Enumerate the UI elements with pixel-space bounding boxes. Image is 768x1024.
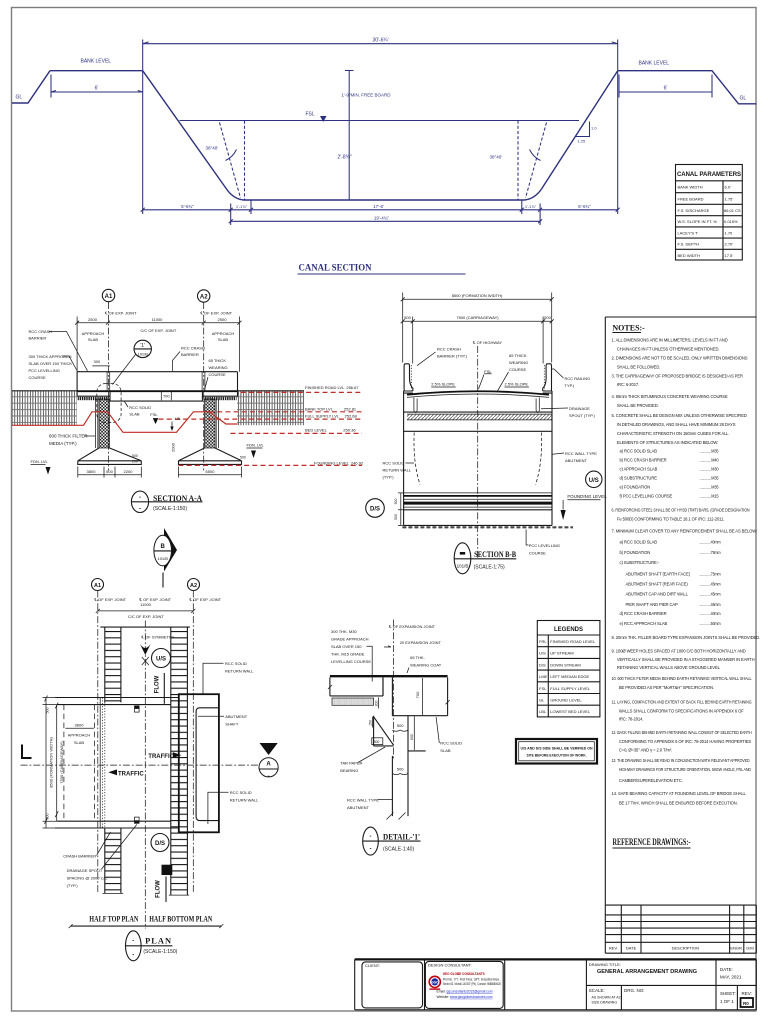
plan deck end line [100,626,189,628]
svg-text:6. REINFORCING STEEL SHALL BE: 6. REINFORCING STEEL SHALL BE OF HYSD (T… [612,507,750,512]
svg-text:GL: GL [16,95,23,101]
svg-text:FDN. LVL: FDN. LVL [247,443,265,448]
svg-text:RETURN WALL: RETURN WALL [225,668,254,673]
svg-text:FINISHED ROAD LVL 256.67: FINISHED ROAD LVL 256.67 [305,385,359,390]
svg-text:COURSE: COURSE [29,375,46,380]
foundation level label left [31,459,51,475]
svg-text:BARRIER: BARRIER [181,352,199,357]
svg-text:-: - [132,939,134,945]
svg-text:CRASH BARRIER: CRASH BARRIER [63,853,96,858]
svg-text:500: 500 [394,499,398,505]
filter media strip A1 [95,399,97,448]
plan return wall label top [203,661,254,694]
svg-text:ABUTMENT SHAFT (EARTH FACE): ABUTMENT SHAFT (EARTH FACE) [626,571,691,576]
svg-text:DRAINAGE SPOUT: DRAINAGE SPOUT [67,868,103,873]
water depth dim 2'-8 5/8" [338,121,352,201]
svg-text:SHALL BE PROVIDED.: SHALL BE PROVIDED. [617,403,659,408]
BB left crash barrier [404,364,413,393]
svg-text:PLAN: PLAN [145,937,172,946]
svg-text:U/S: U/S [589,478,599,484]
svg-text:FINISHED ROAD LEVEL: FINISHED ROAD LEVEL [550,639,596,644]
svg-text:C=0, Ø=35° AND γ = 2.0 T/m³.: C=0, Ø=35° AND γ = 2.0 T/m³. [619,747,672,752]
BB bearing band [407,414,552,420]
svg-text:LEGENDS: LEGENDS [554,627,583,633]
svg-text:ABUTMENT: ABUTMENT [225,714,248,719]
svg-text:1.70: 1.70 [725,230,734,235]
svg-text:RCC SOLID: RCC SOLID [225,661,247,666]
sheet cell [720,991,736,1004]
svg-text:a) RCC SOLID SLAB: a) RCC SOLID SLAB [620,540,658,545]
svg-text:RCC SOLID: RCC SOLID [440,741,462,746]
plan road edges [55,698,179,829]
site verification note box [516,739,597,764]
svg-text:RCC WALL TYPE: RCC WALL TYPE [565,451,597,456]
svg-text:RCC SOLID: RCC SOLID [230,790,252,795]
svg-text:BANK TOP LVL 252.81: BANK TOP LVL 252.81 [305,406,357,411]
svg-text:2200: 2200 [124,469,134,474]
svg-text:RETURN WALL: RETURN WALL [230,797,259,802]
plan flow label top [155,673,165,704]
plan title [126,931,178,961]
svg-text:DATE:: DATE: [720,967,733,972]
svg-text:SLAB: SLAB [74,740,85,745]
bank width dim 6' right [619,75,712,98]
plan D/S marker [151,834,169,852]
svg-text:℄ OF EXP. JOINT: ℄ OF EXP. JOINT [200,311,233,316]
svg-text:3600: 3600 [75,723,85,728]
svg-text:d) RCC CRASH BARRIER: d) RCC CRASH BARRIER [620,611,667,616]
svg-text:8500 (FORMATION WIDTH): 8500 (FORMATION WIDTH) [48,737,53,788]
plan traffic labels [148,752,181,760]
svg-text:7. MINIMUM CLEAR COVER TO ANY: 7. MINIMUM CLEAR COVER TO ANY REINFORCEM… [612,529,758,534]
svg-text:Fe 500D) CONFORMING TO TABLE 1: Fe 500D) CONFORMING TO TABLE 18.1 OF IRC… [617,516,724,521]
svg-text:BE 17 T/m², WHICH SHALL BE ENS: BE 17 T/m², WHICH SHALL BE ENSURED BEFOR… [619,801,738,806]
svg-text:3. THE CARRIAGEWAY OF PROPOSED: 3. THE CARRIAGEWAY OF PROPOSED BRIDGE IS… [612,373,743,378]
svg-text:SHEET:: SHEET: [720,991,736,996]
svg-text:HALF TOP PLAN: HALF TOP PLAN [89,915,138,924]
svg-text:500: 500 [45,708,49,714]
detail1 200 150 dims [368,698,378,728]
detail 1 balloon [113,340,152,384]
plan road centerline [21,764,259,766]
svg-text:B: B [161,544,166,550]
svg-text:3800: 3800 [87,469,97,474]
detail1 600 dim [410,716,414,750]
svg-text:Plot No. 777, First Floor, GPT: Plot No. 777, First Floor, GPT, Industri… [443,977,500,981]
svg-text:............M35: ............M35 [700,475,720,480]
BB right crash barrier [543,364,552,393]
BB formation width dim 8500 [401,293,554,363]
svg-text:C/C OF EXP. JOINT: C/C OF EXP. JOINT [128,614,164,619]
svg-text:COURSE: COURSE [529,551,546,556]
svg-text:GGC: GGC [431,980,439,984]
svg-text:DRAWING TITLE:: DRAWING TITLE: [589,962,621,967]
drg no cell [624,988,645,993]
detail1 500 bearing dim [392,723,408,731]
svg-text:C/C OF EXP. JOINT: C/C OF EXP. JOINT [140,328,176,333]
svg-text:GL: GL [539,698,545,703]
detail1 approach slab label [331,629,372,682]
exp joint label left [104,311,137,316]
BB slope labels [431,382,529,388]
svg-text:5. CONCRETE SHALL BE DESIGN MI: 5. CONCRETE SHALL BE DESIGN MIX UNLESS O… [612,413,747,418]
svg-text:............M35: ............M35 [700,484,720,489]
svg-text:PCC LEVELLING: PCC LEVELLING [29,368,60,373]
svg-text:-: - [370,847,372,853]
svg-text:COURSE: COURSE [209,372,226,377]
return wall label near BB [383,461,415,480]
svg-text:150: 150 [368,720,372,726]
svg-text:GEO GLOBE CONSULTANTS: GEO GLOBE CONSULTANTS [443,972,486,976]
detail1 wearing coat label [407,655,442,673]
svg-text:65 THK.: 65 THK. [410,655,425,660]
svg-text:2500: 2500 [88,317,98,322]
approach/deck dims 2500-11000-2500 [75,317,241,372]
svg-text:e) RCC APPROACH SLAB: e) RCC APPROACH SLAB [620,621,668,626]
svg-text:101/B: 101/B [137,352,148,357]
svg-text:BARRIER (TYP.): BARRIER (TYP.) [437,354,468,359]
A2 centerline [203,302,205,471]
svg-text:500: 500 [397,723,404,728]
svg-text:1 OF 1: 1 OF 1 [720,999,734,1004]
svg-text:500: 500 [544,315,551,320]
detail1 levelling course stipple [332,698,374,705]
svg-text:-: - [370,834,372,840]
svg-text:A2: A2 [200,295,208,301]
2000 depth dim [171,442,176,452]
BB footing 500 dims [394,493,404,526]
detail1 road surface [330,675,448,677]
canal bank level right [618,61,757,104]
detail callout dashed ellipse at A1 [97,384,121,423]
svg-text:1.25: 1.25 [578,139,587,144]
bottom dim row 2: 19'-4 3/4" [231,216,540,222]
svg-text:1.75': 1.75' [725,196,734,201]
filter media strip A2 [216,399,218,448]
detail1 300 dim box [372,738,383,745]
detail1 approach slab body [328,678,383,696]
svg-text:℄ OF EXP. JOINT: ℄ OF EXP. JOINT [189,597,222,602]
svg-text:FULL SUPPLY LVL 252.68: FULL SUPPLY LVL 252.68 [305,414,358,419]
svg-text:THK. M15 GRADE: THK. M15 GRADE [331,652,365,657]
FSL water line [180,112,580,123]
svg-text:FRL: FRL [539,639,547,644]
canal right slope [542,71,618,189]
svg-text:(TYP.): (TYP.) [67,883,79,888]
road embankment hatch right [237,391,304,425]
detail1 wall stem [387,756,409,820]
abutment A2 shaft [205,399,216,448]
svg-text:SLAB: SLAB [440,748,451,753]
svg-text:TRAFFIC: TRAFFIC [148,754,174,760]
svg-text:7500 (CARRIAGEWAY): 7500 (CARRIAGEWAY) [456,315,499,320]
slope indicator 1.0/1.25 [575,122,597,144]
svg-text:............40mm: ............40mm [700,611,722,616]
svg-text:A2: A2 [190,583,197,589]
svg-text:RCC RAILING: RCC RAILING [565,376,591,381]
section B-B title [454,543,516,574]
svg-text:RCC CRASH: RCC CRASH [181,346,205,351]
filter media label [49,434,95,447]
BB abutment cap line [404,430,552,432]
BB deck wearing surface [407,391,549,394]
reference drawings heading [613,837,691,848]
section A cut marker [259,743,278,780]
svg-text:CANAL PARAMETERS: CANAL PARAMETERS [677,172,741,178]
svg-text:GROUND LEVEL: GROUND LEVEL [550,698,582,703]
plan U/S marker [152,649,171,668]
svg-text:1. ALL DIMENSIONS ARE IN MILLI: 1. ALL DIMENSIONS ARE IN MILLIMETERS, LE… [612,337,728,342]
canal parameters table [676,165,743,261]
title block frame [355,959,757,1009]
svg-text:5'-6¾": 5'-6¾" [578,204,591,209]
svg-text:700: 700 [163,394,170,399]
notes heading [612,324,645,333]
svg-text:BANK LEVEL: BANK LEVEL [81,59,112,65]
svg-text:500: 500 [132,454,138,458]
plan return wall [179,694,219,832]
detail1 wall 500 dim [392,767,408,775]
svg-text:TYP.): TYP.) [565,383,575,388]
svg-text:REV.: REV. [609,946,618,951]
svg-text:DRG. NO:: DRG. NO: [624,988,645,993]
svg-text:GL: GL [740,96,747,102]
svg-text:DRAINAGE: DRAINAGE [569,406,590,411]
approach slab label left [29,354,78,380]
svg-text:6.0': 6.0' [725,185,732,190]
svg-text:SLAB: SLAB [218,337,229,342]
svg-text:2'-8⅝": 2'-8⅝" [338,155,352,161]
svg-text:0.015%: 0.015% [724,219,738,224]
svg-text:FSL: FSL [150,412,158,417]
svg-text:FOUNDING LEVEL: FOUNDING LEVEL [567,494,607,499]
plan joint centerlines [98,591,194,894]
BB pcc levelling label [526,530,560,556]
svg-text:MEDIA (TYP.): MEDIA (TYP.) [49,441,77,446]
svg-text:RETAINING VERTICAL WALLS ABOVE: RETAINING VERTICAL WALLS ABOVE GROUND LE… [617,665,721,670]
svg-text:APPROACH: APPROACH [82,331,105,336]
svg-text:(SCALE-1:150): (SCALE-1:150) [153,506,187,512]
svg-text:-: - [132,953,134,959]
svg-text:LBL: LBL [539,709,547,714]
svg-text:65 THICK: 65 THICK [209,358,227,363]
plan drainage spout squares [135,706,140,823]
detail1 joint gap [383,678,392,716]
BB hidden return wall lines [414,433,420,485]
svg-text:SLAB: SLAB [129,412,140,417]
exp joint label right [200,311,233,316]
svg-text:............50mm: ............50mm [700,621,722,626]
svg-text:13. THE DRAWING SHALL BE READ: 13. THE DRAWING SHALL BE READ IN CONJUNC… [612,758,750,763]
svg-text:30'-6¼': 30'-6¼' [372,38,388,44]
700 slab depth dim [161,392,171,400]
consultant logo [429,976,440,987]
abutment A1 balloon [102,289,114,301]
svg-text:F.S. DISCHARGE: F.S. DISCHARGE [678,208,710,213]
svg-text:Email: ggconsultants2015@gmail: Email: ggconsultants2015@gmail.com [437,989,493,993]
svg-text:LACEY'S 'f': LACEY'S 'f' [678,230,699,235]
svg-text:............40mm: ............40mm [700,540,722,545]
svg-text:RCC SOLID: RCC SOLID [129,405,151,410]
plan abutment A2 band [171,627,188,895]
BB founding level label [561,494,608,520]
svg-text:1'-9"MIN. FREE BOARD: 1'-9"MIN. FREE BOARD [342,93,392,98]
svg-text:38°40': 38°40' [206,146,219,151]
svg-text:............45mm: ............45mm [700,592,722,597]
svg-text:d) SUBSTRUCTURE: d) SUBSTRUCTURE [620,475,658,480]
title CANAL SECTION [298,263,466,275]
svg-text:WEARING: WEARING [509,360,528,365]
plan A2 balloon [188,579,200,591]
svg-text:300 THICK APPROACH: 300 THICK APPROACH [29,354,72,359]
svg-text:D/S: D/S [370,507,380,513]
svg-text:BANK WIDTH: BANK WIDTH [678,185,703,190]
svg-text:-: - [139,507,141,513]
svg-text:c) SUBSTRUCTURE:-: c) SUBSTRUCTURE:- [620,560,660,565]
svg-text:DESCRIPTION: DESCRIPTION [672,946,699,951]
svg-text:U/S: U/S [156,657,166,663]
design consultant box [425,961,503,1008]
road embankment hatch left [12,391,77,425]
svg-text:F.S. DEPTH: F.S. DEPTH [678,242,700,247]
svg-text:FDN. LVL: FDN. LVL [31,459,49,464]
svg-text:2500: 2500 [218,317,228,322]
svg-text:101/B: 101/B [457,564,469,569]
scale cell [589,988,621,1005]
svg-text:ENGR.: ENGR. [730,946,743,951]
svg-text:ABUTMENT CAP AND DIRT WALL: ABUTMENT CAP AND DIRT WALL [626,592,689,597]
svg-text:............M30: ............M30 [700,466,720,471]
svg-text:SECTION A-A: SECTION A-A [153,494,202,503]
section B cut marker top [154,528,177,588]
detail1 deck slab [392,678,449,716]
svg-text:FOUNDING LEVEL 246.92: FOUNDING LEVEL 246.92 [314,460,364,465]
svg-text:SLAB: SLAB [88,337,99,342]
svg-text:BANK LEVEL: BANK LEVEL [639,61,670,67]
LBL marker [170,417,181,431]
svg-text:DATE: DATE [626,946,637,951]
svg-text:2. DIMENSIONS ARE NOT TO BE SC: 2. DIMENSIONS ARE NOT TO BE SCALED, ONLY… [612,355,748,360]
plan A1 balloon [92,579,104,591]
svg-text:AS SHOWN AT A2: AS SHOWN AT A2 [592,996,621,1000]
svg-text:1'-1⅞": 1'-1⅞" [525,204,537,209]
A2 footing [179,448,242,464]
svg-text:℄ OF EXPANSION JOINT: ℄ OF EXPANSION JOINT [388,624,436,629]
BB D/S marker [366,499,385,518]
BB footing bands [404,493,552,510]
FSL marker in span [150,412,158,424]
canal left slope [143,71,244,200]
svg-text:GENERAL ARRANGEMENT DRAWING: GENERAL ARRANGEMENT DRAWING [597,969,697,975]
svg-text:5'-6¾": 5'-6¾" [181,204,194,209]
BB wall type abutment label [553,451,598,463]
svg-text:ABUTMENT SHAFT (REAR FACE): ABUTMENT SHAFT (REAR FACE) [626,582,689,587]
svg-text:WALLS SHALL CONFORM TO SPECIFI: WALLS SHALL CONFORM TO SPECIFICATIONS IN… [619,709,744,714]
svg-text:ELEMENTS OF STRUCTURES AS INDI: ELEMENTS OF STRUCTURES AS INDICATED BELO… [617,440,718,445]
svg-text:8. 20mm THK. FILLER BOARD TYPE: 8. 20mm THK. FILLER BOARD TYPE EXPANSION… [612,635,761,640]
slope angle right 38d40' [490,121,547,201]
detail1 expansion joint centerline [388,620,436,759]
plan return wall label bottom [208,790,259,824]
svg-text:U/S: U/S [539,651,546,656]
svg-text:SLAB OVER 150: SLAB OVER 150 [331,644,362,649]
svg-text:-: - [268,774,270,780]
BB FSL label [479,369,493,389]
svg-text:(SCALE-1:40): (SCALE-1:40) [383,846,414,852]
detail1 bearing pedestal [374,716,426,773]
svg-text:LEVELLING COURSE: LEVELLING COURSE [331,659,371,664]
svg-text:GRADE APPROACH: GRADE APPROACH [331,637,369,642]
svg-text:2.70': 2.70' [725,242,734,247]
svg-text:A1: A1 [105,294,113,300]
svg-text:20 EXPANSION JOINT: 20 EXPANSION JOINT [400,640,442,645]
svg-text:HALF BOTTOM PLAN: HALF BOTTOM PLAN [149,915,212,924]
BB carriageway dim 500 7500 500 [401,315,554,363]
svg-text:f) PCC LEVELLING COURSE: f) PCC LEVELLING COURSE [620,493,673,498]
crash barrier label left [29,329,88,371]
svg-text:2.5% SLOPE: 2.5% SLOPE [505,382,529,387]
top width dim 30'-6 1/4" [143,38,618,48]
svg-text:............75mm: ............75mm [700,550,722,555]
svg-text:8500 (FORMATION WIDTH): 8500 (FORMATION WIDTH) [452,293,503,298]
svg-text:FULL SUPPLY LEVEL: FULL SUPPLY LEVEL [550,686,591,691]
svg-text:ABUTMENT: ABUTMENT [565,458,588,463]
svg-text:RETURN WALL: RETURN WALL [383,468,412,473]
svg-text:ABUTMENT: ABUTMENT [347,805,370,810]
svg-text:FLOW: FLOW [156,880,162,898]
svg-text:............M15: ............M15 [700,493,720,498]
svg-text:TAR PAPER: TAR PAPER [340,761,362,766]
svg-text:Sector 82, Mohali-140307 (Pb).: Sector 82, Mohali-140307 (Pb). Contact: … [443,982,501,986]
svg-text:DESIGN CONSULTANT:: DESIGN CONSULTANT: [428,963,472,968]
free board dim 1'-9" [342,71,392,121]
svg-text:A1: A1 [94,583,101,589]
svg-text:MAY, 2021: MAY, 2021 [720,974,742,979]
svg-text:SECTION B-B: SECTION B-B [474,550,517,559]
svg-text:℄ OF EXP. JOINT: ℄ OF EXP. JOINT [104,311,137,316]
foundation level label mid [240,443,265,460]
svg-text:700: 700 [415,691,420,698]
svg-text:4. 65mm THICK BITUMINOUS CONCR: 4. 65mm THICK BITUMINOUS CONCRETE WEARIN… [612,394,728,399]
svg-text:PIER SHAFT AND PIER CAP: PIER SHAFT AND PIER CAP [626,602,678,607]
svg-text:WEARING: WEARING [209,365,228,370]
svg-text:U/S AND D/S SIDE SHALL BE VERI: U/S AND D/S SIDE SHALL BE VERIFIED ON [521,746,593,751]
svg-text:REV:: REV: [742,991,752,996]
svg-text:6': 6' [664,86,668,92]
svg-text:SLAB OVER 150 THICK: SLAB OVER 150 THICK [29,361,73,366]
svg-text:D/S: D/S [539,662,546,667]
BB U/S marker [586,471,602,487]
svg-text:CANAL SECTION: CANAL SECTION [299,263,372,273]
canal bank level left [50,59,143,71]
svg-text:UP STREAM: UP STREAM [550,651,573,656]
svg-text:300: 300 [94,359,101,364]
svg-text:CLIENT:: CLIENT: [365,963,380,968]
BB deck soffit [404,411,552,413]
level labels right [305,385,364,465]
svg-text:BEARING: BEARING [340,768,358,773]
detail1 tar paper label [340,747,385,773]
svg-text:b) FOUNDATION: b) FOUNDATION [620,550,651,555]
svg-text:(SCALE-1:75): (SCALE-1:75) [474,565,505,571]
svg-text:CHAINAGES IN FT UNLESS OTHERWI: CHAINAGES IN FT UNLESS OTHERWISE MENTION… [617,346,720,351]
svg-text:12. BACK FILLING BEHIND EARTH: 12. BACK FILLING BEHIND EARTH RETAINING … [612,730,752,735]
plan flow label bottom [156,877,167,903]
svg-text:a) RCC SOLID SLAB: a) RCC SOLID SLAB [620,448,658,453]
svg-text:............45mm: ............45mm [700,582,722,587]
rcc solid slab label [125,402,152,417]
svg-text:REFERENCE DRAWINGS:-: REFERENCE DRAWINGS:- [613,837,691,847]
